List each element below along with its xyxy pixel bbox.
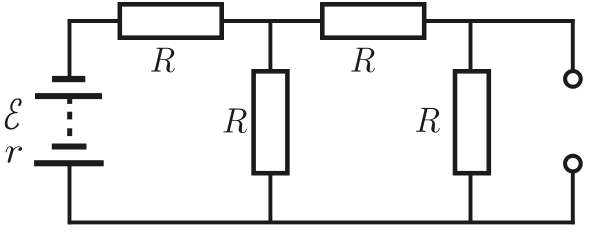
wire: bottom horizontal bus [68,220,575,224]
label internal resistance r [6,146,22,162]
wire: left vertical from battery to bottom bus [68,163,72,224]
wire: right vertical to upper terminal [571,19,575,70]
battery cell 2 short plate [52,144,87,150]
wire: left vertical from top bus to battery [68,19,72,80]
label R (R3) [223,109,247,134]
resistor R1 (top left) [120,4,222,37]
wire: right junction vertical (node B) [469,21,473,222]
wire: top horizontal bus [68,19,575,23]
label R (R4) [416,108,440,133]
battery cell 1 short plate [52,76,85,82]
resistor R3 (left shunt) [254,71,288,173]
battery cell 2 long plate [34,160,104,166]
resistor R4 (right shunt) [455,71,489,173]
wire: middle junction vertical (node A) [268,21,272,222]
label R (R1) [151,48,175,73]
battery dashed link [67,99,72,104]
terminal: lower output circle [565,156,581,172]
label EMF script-E [5,98,22,129]
terminal: upper output circle [565,71,581,87]
battery cell 1 long plate [35,93,102,99]
wire: right vertical from lower terminal to bottom bus [571,172,575,224]
label R (R2) [351,48,375,73]
resistor R2 (top right) [322,4,424,37]
